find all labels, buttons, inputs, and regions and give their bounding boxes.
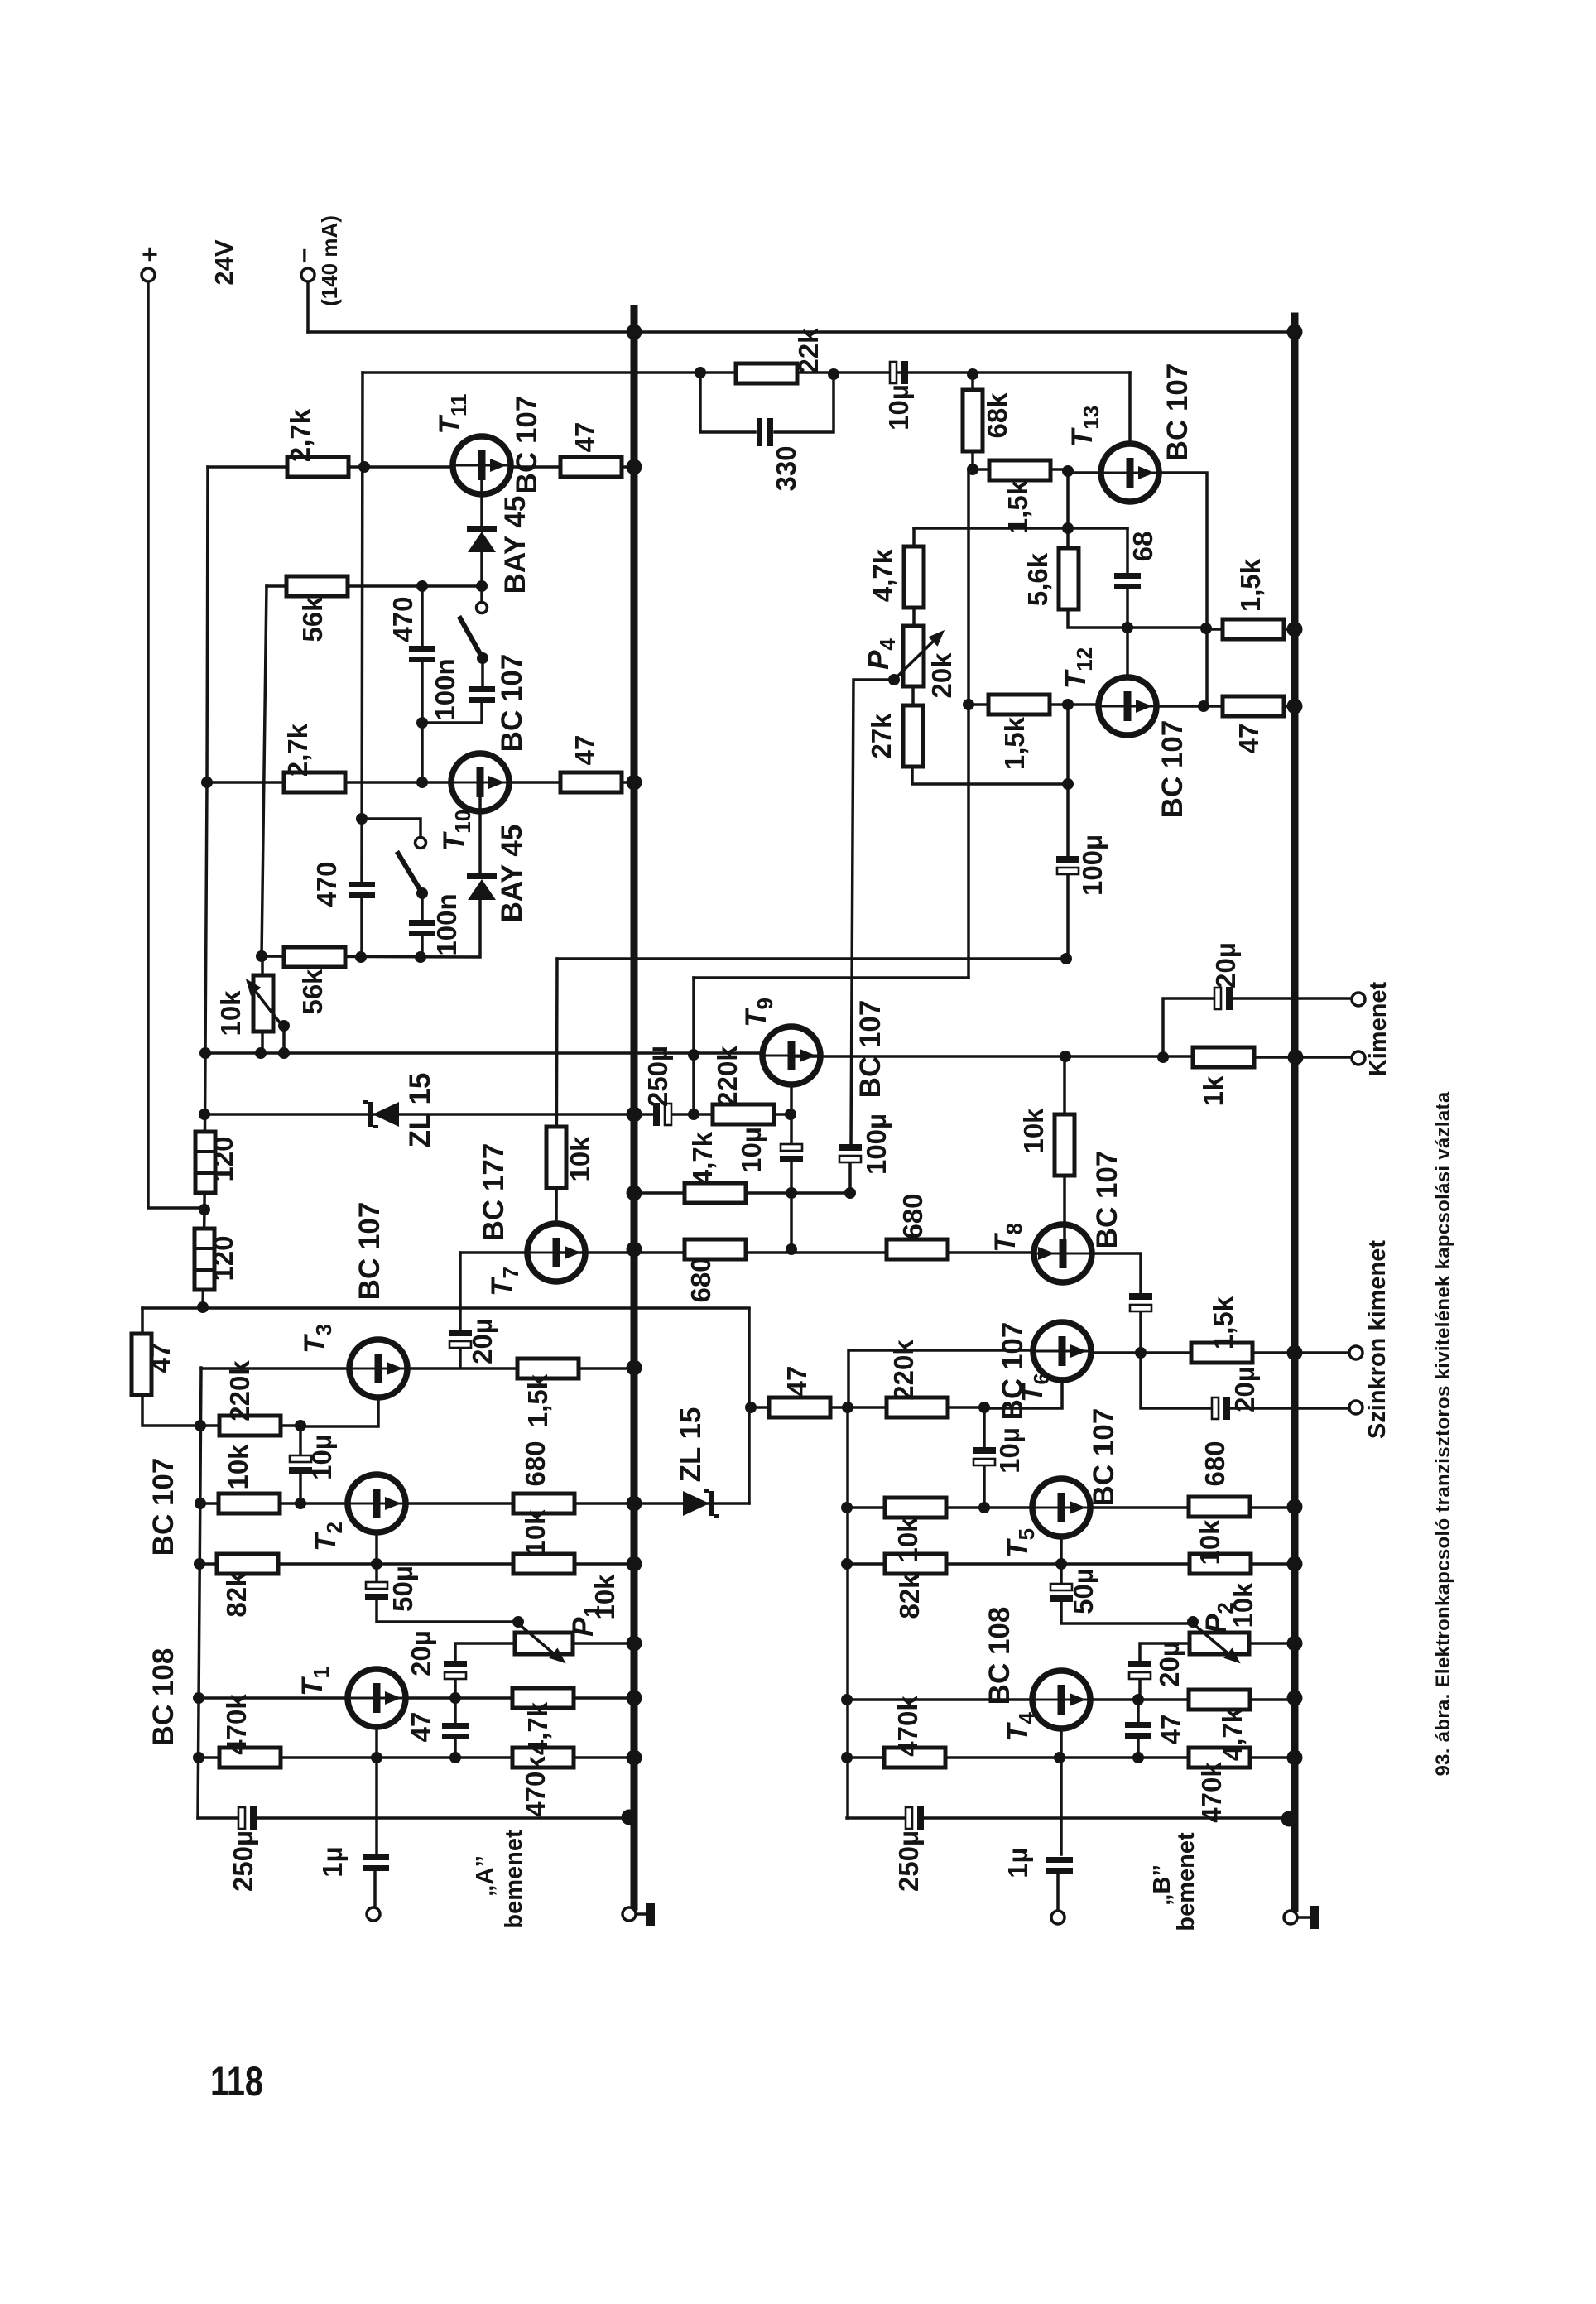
transistor T9 BC107 <box>762 1027 820 1085</box>
svg-text:ZL 15: ZL 15 <box>675 1407 707 1483</box>
wire base tie horizontal y1181 <box>694 976 969 979</box>
wire 220k A line <box>200 1424 300 1427</box>
resistor 2,7k #1 <box>287 457 349 477</box>
svg-text:bemenet: bemenet <box>1173 1832 1199 1931</box>
transistor T7 BC177 <box>527 1224 585 1282</box>
svg-text:BC 107: BC 107 <box>854 1000 887 1099</box>
wire T5 emitter to bus <box>1089 1506 1295 1509</box>
capacitor 20µ A <box>444 1661 467 1679</box>
wire T3 emitter line to bus <box>406 1367 634 1370</box>
capacitor 100n #1 <box>469 686 495 703</box>
resistor 47 (T11 emitter) <box>560 457 622 477</box>
svg-text:20µ: 20µ <box>1229 1366 1260 1412</box>
potentiometer P1 wiper arrow <box>519 1624 556 1656</box>
svg-text:10k: 10k <box>1018 1108 1049 1154</box>
svg-text:BC 177: BC 177 <box>478 1143 510 1242</box>
resistor 2,7k #2 <box>284 772 345 792</box>
svg-text:118: 118 <box>210 2058 263 2104</box>
svg-text:+: + <box>134 246 165 262</box>
wire 68 cap hang <box>1126 528 1129 628</box>
wire T2 emitter to bus <box>405 1502 634 1505</box>
resistor 10k (T8 collector) <box>1055 1114 1074 1176</box>
wire ZL15#2 line <box>634 1502 749 1505</box>
svg-text:50µ: 50µ <box>387 1566 418 1612</box>
svg-text:47: 47 <box>1156 1715 1186 1745</box>
terminal ground A <box>623 1907 636 1921</box>
transistor T2 BC107 <box>348 1474 406 1532</box>
capacitor 20µ (T3-T7) <box>449 1330 472 1348</box>
wire T9 base long line <box>205 1051 763 1055</box>
resistor 10k B2 <box>1190 1554 1251 1574</box>
resistor 680 A <box>513 1494 574 1513</box>
transistor T10 BC107 <box>451 753 509 811</box>
wire switch2 chain / 100n#2 <box>362 819 422 957</box>
wire A-rail lower column <box>198 1368 201 1818</box>
svg-text:250µ: 250µ <box>228 1830 258 1892</box>
capacitor 20µ (Kimenet) <box>1214 987 1233 1010</box>
wire 10u A chain <box>299 1426 302 1503</box>
wire 10k B line to T5 <box>847 1506 1033 1509</box>
wire T2 collector <box>375 1532 378 1564</box>
svg-text:ZL 15: ZL 15 <box>404 1073 436 1148</box>
transistor T6 BC107 <box>1033 1322 1091 1380</box>
wire sync2 20u line <box>1141 1353 1350 1408</box>
wire 47/220k B line y1700 <box>751 1406 984 1409</box>
wire long vertical T11-base / switch2 column <box>362 373 363 957</box>
svg-text:10k: 10k <box>892 1517 923 1563</box>
terminal Szinkron 1 <box>1349 1346 1363 1359</box>
capacitor 1µ A <box>363 1854 389 1871</box>
capacitor 50µ B <box>1050 1584 1073 1602</box>
svg-text:Szinkron kimenet: Szinkron kimenet <box>1364 1240 1391 1439</box>
capacitor 100n #2 <box>409 920 435 936</box>
wire P4 wiper to 100u column <box>850 680 894 1193</box>
svg-text:330: 330 <box>771 445 801 491</box>
wire 1,5k top-right to bus <box>1206 628 1295 631</box>
svg-text:250µ: 250µ <box>893 1830 924 1892</box>
resistor 5,6k <box>1059 548 1079 609</box>
wire T4 emitter line <box>1089 1698 1295 1701</box>
resistor 82k A <box>217 1554 278 1574</box>
svg-text:47: 47 <box>145 1343 175 1373</box>
resistor 1k <box>1193 1047 1254 1067</box>
ground bus B <box>1291 316 1299 1908</box>
wire 82k B line <box>847 1562 1295 1566</box>
wire T3 collector to 220k node <box>300 1397 378 1426</box>
capacitor 100µ (T12) <box>1056 856 1079 874</box>
wire 10u B chain <box>983 1407 986 1508</box>
transistor T11 BC107 <box>453 436 511 494</box>
svg-text:„B”: „B” <box>1149 1864 1175 1906</box>
svg-text:–: – <box>287 248 318 263</box>
svg-text:BC 107: BC 107 <box>496 654 528 753</box>
svg-text:47: 47 <box>570 735 600 766</box>
svg-text:BC 107: BC 107 <box>1088 1408 1120 1507</box>
resistor 470k B2 <box>1189 1748 1250 1768</box>
svg-text:bemenet: bemenet <box>501 1830 527 1929</box>
svg-text:680: 680 <box>897 1193 928 1239</box>
svg-text:10k: 10k <box>215 990 246 1037</box>
svg-text:10k: 10k <box>520 1509 550 1556</box>
svg-text:68k: 68k <box>982 392 1012 439</box>
resistor 10k (T7 collector) <box>546 1127 566 1188</box>
capacitor 250µ A <box>238 1806 257 1830</box>
wire T1 emitter line <box>405 1696 634 1700</box>
svg-text:BC 107: BC 107 <box>997 1322 1029 1421</box>
svg-text:10µ: 10µ <box>306 1434 337 1480</box>
wire T8 emitter / 20u sync1 <box>1091 1253 1141 1353</box>
transistor T3 BC107 <box>349 1340 407 1397</box>
potentiometer P1 10k body <box>515 1633 573 1654</box>
terminal input A <box>367 1907 380 1921</box>
wire T6 base line <box>848 1350 1034 1407</box>
svg-text:Kimenet: Kimenet <box>1365 981 1392 1076</box>
wire T5 collector <box>1060 1536 1063 1564</box>
potentiometer P2 10k body <box>1190 1633 1249 1654</box>
wire T7 base lead <box>460 1251 528 1254</box>
wire T6 emitter / 1,5k / sync out <box>1090 1351 1350 1354</box>
resistor 1,5k (emitter node) <box>1223 619 1284 639</box>
capacitor 470 #2 <box>349 882 375 898</box>
resistor 47 (T10 emitter) <box>560 772 622 792</box>
wire 10k T7 column <box>556 959 557 1224</box>
ground bus A <box>631 309 638 1907</box>
svg-text:100µ: 100µ <box>861 1114 892 1175</box>
wire 50u B to P2 wiper <box>1061 1564 1193 1623</box>
wire T12 collector <box>1126 628 1129 678</box>
resistor 4,7k (P4 chain) <box>904 546 924 608</box>
resistor 10k A <box>219 1494 280 1513</box>
resistor 680 #2 <box>887 1239 948 1259</box>
wire switch1 chain / 100n#1 <box>482 586 483 723</box>
svg-text:4,7k: 4,7k <box>1217 1707 1247 1761</box>
svg-text:10k: 10k <box>1195 1519 1225 1566</box>
wire T2 base line <box>200 1502 349 1505</box>
svg-text:220k: 220k <box>712 1046 743 1107</box>
resistor 1,5k (T6) <box>1191 1343 1252 1363</box>
wire T3 base lead <box>201 1367 350 1370</box>
svg-text:100n: 100n <box>430 658 460 720</box>
wire 470k B line <box>847 1756 1295 1759</box>
capacitor 10µ (22k line) <box>890 361 908 384</box>
wire -terminal drop <box>306 281 310 332</box>
resistor 47 B <box>769 1397 830 1417</box>
svg-text:470: 470 <box>311 861 342 907</box>
capacitor 50µ A <box>365 1582 388 1600</box>
capacitor 470 #1 <box>409 646 435 662</box>
svg-text:2,7k: 2,7k <box>285 408 315 462</box>
capacitor 10µ B <box>973 1447 996 1465</box>
wire +24V rail <box>148 281 204 1208</box>
svg-text:1µ: 1µ <box>317 1846 348 1877</box>
svg-text:20µ: 20µ <box>1154 1641 1185 1687</box>
capacitor 68 <box>1114 573 1141 589</box>
wire T11 emitter to ground bus <box>510 465 634 469</box>
wire emitter rail y1580 <box>142 1306 749 1310</box>
wire switch2 blade <box>398 854 422 893</box>
wire top supply line to buses <box>308 330 1295 334</box>
terminal -24V <box>301 268 315 281</box>
capacitor 100µ (T9 chain) <box>839 1144 862 1162</box>
diode BAY 45 (T10) <box>467 873 497 900</box>
svg-text:BC 107: BC 107 <box>353 1202 386 1301</box>
svg-text:10µ: 10µ <box>994 1427 1025 1474</box>
resistor 47 A-rail <box>132 1334 151 1395</box>
wire x906 column (ZL2 to emitter rail) <box>748 1309 751 1503</box>
wire T1 collector to 1u input <box>375 1726 377 1907</box>
diode BAY 45 (T11) <box>467 526 497 552</box>
svg-text:120: 120 <box>208 1235 238 1281</box>
potentiometer P4 20k body <box>903 626 924 686</box>
svg-text:4,7k: 4,7k <box>868 548 898 602</box>
wire 100n#1 to 470#1 node <box>422 721 482 724</box>
svg-text:47: 47 <box>406 1712 436 1743</box>
svg-text:1k: 1k <box>1198 1075 1228 1106</box>
wire left rail column (2,7k/120/A-chain) <box>203 467 208 1308</box>
wire 5,6k column + y758 line <box>1068 471 1206 628</box>
svg-text:BC 107: BC 107 <box>147 1458 180 1556</box>
wire 1,5k T12 base line <box>969 703 1099 706</box>
svg-text:100n: 100n <box>431 893 462 955</box>
svg-text:BC 108: BC 108 <box>147 1648 180 1747</box>
switch contact 2 <box>416 838 426 849</box>
svg-text:10k: 10k <box>565 1136 595 1182</box>
svg-text:470k: 470k <box>892 1696 923 1757</box>
wire 470#1 chain <box>421 586 424 782</box>
svg-text:47: 47 <box>570 422 600 453</box>
wire pot wiper tap <box>282 1026 286 1053</box>
wire T12 emitter / 47 to bus <box>1156 705 1295 708</box>
transistor T8 BC107 <box>1034 1224 1092 1282</box>
svg-text:93. ábra. Elektronkapcsoló tra: 93. ábra. Elektronkapcsoló tranzisztoros… <box>1432 1091 1454 1776</box>
wire 56k #1 line <box>267 584 482 588</box>
capacitor 1µ B <box>1046 1857 1073 1874</box>
wire 100u T12 column <box>1066 705 1070 959</box>
switch contact 1 <box>477 603 488 613</box>
capacitor 10µ (T9) <box>780 1144 803 1162</box>
wire B rail column <box>846 1407 849 1818</box>
wire Kimenet AC out <box>1163 998 1352 1057</box>
wire T4 collector to 1u input <box>1058 1728 1061 1911</box>
svg-text:10k: 10k <box>223 1444 253 1490</box>
wire T7 base cap column <box>459 1253 462 1368</box>
svg-text:470: 470 <box>387 596 418 642</box>
svg-text:680: 680 <box>520 1441 550 1486</box>
svg-text:4,7k: 4,7k <box>687 1131 718 1185</box>
svg-text:BAY 45: BAY 45 <box>499 496 531 594</box>
svg-text:100µ: 100µ <box>1077 835 1108 896</box>
svg-text:680: 680 <box>1199 1441 1230 1486</box>
capacitor 20µ (sync bottom) <box>1212 1397 1230 1420</box>
svg-text:BC 107: BC 107 <box>1161 363 1194 462</box>
svg-text:50µ: 50µ <box>1068 1568 1098 1614</box>
resistor 1,5k (T13 base) <box>989 460 1050 480</box>
resistor 10k A2 <box>513 1554 574 1574</box>
svg-text:680: 680 <box>685 1257 716 1302</box>
svg-text:BC 107: BC 107 <box>1091 1151 1123 1249</box>
svg-text:(140 mA): (140 mA) <box>317 215 342 306</box>
wire T13 emitter <box>1158 473 1207 706</box>
capacitor 250µ (mid) <box>653 1103 671 1126</box>
svg-text:120: 120 <box>208 1136 238 1181</box>
wire P2 left / 20u B <box>1140 1643 1190 1700</box>
resistor 4,7k B <box>1189 1690 1250 1710</box>
wire node line 22k/T13 collector feed <box>363 371 1130 374</box>
resistor 27k <box>903 705 923 767</box>
potentiometer 10k (left) body <box>253 975 273 1032</box>
wire 47 cap B chain <box>1137 1700 1140 1758</box>
wire T9/T12 base tie column <box>692 978 695 1114</box>
transistor T4 BC108 <box>1032 1671 1090 1729</box>
svg-text:27k: 27k <box>866 713 897 759</box>
svg-text:56k: 56k <box>297 969 328 1015</box>
resistor 1,5k (T3) <box>517 1359 579 1378</box>
wire T13 collector <box>1128 373 1132 445</box>
svg-text:20µ: 20µ <box>406 1630 436 1676</box>
terminal +24V <box>142 268 155 281</box>
svg-text:1,5k: 1,5k <box>1208 1296 1238 1349</box>
wire 250u A line <box>198 1816 629 1820</box>
resistor 680 #1 <box>685 1239 746 1259</box>
resistor 47 (T12 emitter) <box>1223 696 1284 716</box>
terminal ground B <box>1284 1911 1297 1924</box>
wire T10 base line <box>207 781 452 784</box>
svg-text:82k: 82k <box>221 1571 252 1618</box>
potentiometer P2 wiper arrow <box>1194 1624 1231 1656</box>
svg-text:1,5k: 1,5k <box>1002 479 1033 533</box>
wire 82k A line <box>199 1562 634 1566</box>
svg-text:470k: 470k <box>1196 1762 1227 1823</box>
resistor 470k A1 <box>219 1748 281 1768</box>
svg-text:250µ: 250µ <box>642 1046 673 1107</box>
svg-text:BC 107: BC 107 <box>1156 720 1189 819</box>
wire T9 collector chain w/ 10u <box>790 1085 793 1249</box>
svg-text:20µ: 20µ <box>1210 942 1241 988</box>
resistor 120 #2 <box>195 1229 214 1290</box>
svg-text:82k: 82k <box>894 1573 925 1619</box>
wire P1 left / 20u A <box>455 1643 515 1698</box>
resistor 680 B <box>1189 1497 1250 1517</box>
svg-text:47: 47 <box>781 1366 812 1397</box>
wire T10 collector to diode D2 and 56k#2 line <box>262 796 480 957</box>
svg-text:20µ: 20µ <box>467 1318 498 1364</box>
svg-text:BC 108: BC 108 <box>983 1607 1016 1705</box>
svg-text:470k: 470k <box>221 1694 252 1755</box>
wire 470k A line <box>199 1756 634 1759</box>
resistor 220k A <box>219 1416 281 1436</box>
capacitor 20µ B <box>1128 1661 1151 1679</box>
svg-text:47: 47 <box>1233 724 1264 754</box>
wire T8 collector w/10k <box>1063 1056 1066 1239</box>
resistor 1,5k (T12 base) <box>988 695 1050 714</box>
wire 47A vertical branch <box>142 1308 200 1426</box>
wire 330 bypass branch <box>700 373 834 432</box>
svg-text:BC 107: BC 107 <box>511 396 543 494</box>
zener ZL 15 #1 <box>363 1102 399 1127</box>
resistor 470k A2 <box>512 1748 574 1768</box>
capacitor 250µ B <box>906 1806 924 1830</box>
zener ZL 15 #2 <box>683 1491 719 1516</box>
wire T1 base line <box>199 1696 349 1700</box>
wire 250u B line <box>847 1816 1287 1820</box>
svg-text:1,5k: 1,5k <box>999 716 1030 770</box>
wire switch1 blade <box>460 618 483 658</box>
wire 68k/1,5k T13 line <box>973 374 1068 469</box>
svg-text:22k: 22k <box>793 328 824 374</box>
potentiometer P4 wiper arrow <box>892 639 935 681</box>
resistor 120 #1 <box>195 1132 215 1193</box>
svg-text:1,5k: 1,5k <box>522 1373 553 1427</box>
transistor T5 BC107 <box>1032 1479 1090 1537</box>
capacitor 47 B <box>1125 1722 1151 1739</box>
svg-text:10µ: 10µ <box>883 384 914 430</box>
wire P2 right to bus <box>1249 1642 1295 1645</box>
ground symbol B <box>1297 1916 1310 1919</box>
wire T4 base line <box>847 1698 1033 1701</box>
svg-text:5,6k: 5,6k <box>1022 552 1053 606</box>
wire T11 collector to diode D1 <box>480 468 483 586</box>
svg-text:4,7k: 4,7k <box>522 1701 553 1755</box>
wire T13 base <box>1068 471 1102 474</box>
resistor 56k #1 <box>286 576 348 596</box>
wire P1 right to bus <box>573 1642 634 1645</box>
capacitor 20µ (sync top) <box>1129 1293 1152 1311</box>
wire 250u/220k line right of bus <box>634 1113 791 1116</box>
resistor 22k <box>736 363 797 383</box>
wire feedback line y1158 <box>557 957 1066 960</box>
svg-text:1µ: 1µ <box>1002 1847 1033 1878</box>
svg-text:68: 68 <box>1127 532 1158 562</box>
svg-text:„A”: „A” <box>472 1855 498 1897</box>
resistor 56k #2 <box>284 947 345 967</box>
capacitor 47 A <box>442 1723 469 1739</box>
wire T11 base line <box>208 465 454 469</box>
transistor T1 BC108 <box>348 1669 406 1727</box>
ground symbol A <box>636 1912 647 1916</box>
svg-text:BAY 45: BAY 45 <box>496 825 528 923</box>
wire 56k column <box>262 586 267 956</box>
transistor T12 BC107 <box>1098 677 1156 735</box>
svg-text:56k: 56k <box>297 596 328 642</box>
svg-text:220k: 220k <box>888 1340 919 1401</box>
wire output line y1276 <box>795 1056 1352 1057</box>
resistor 10k B <box>885 1498 946 1518</box>
resistor 4,7k (T9) <box>685 1183 746 1203</box>
wire T10 emitter to bus <box>508 781 634 784</box>
svg-text:470k: 470k <box>520 1756 550 1817</box>
potentiometer 10k wiper arrow <box>253 988 285 1029</box>
terminal Szinkron 2 <box>1349 1401 1363 1414</box>
wire 680 line to T8 base <box>556 1251 1035 1254</box>
terminal Kimenet 1 <box>1352 993 1365 1006</box>
transistor T13 BC107 <box>1101 444 1159 502</box>
wire T12 base column x1170 <box>967 469 970 978</box>
wire 50u A to P1 wiper <box>377 1564 518 1622</box>
wire 4,7k T9 line <box>634 1191 850 1195</box>
terminal Kimenet 2 <box>1352 1051 1365 1065</box>
resistor 220k (T9) <box>713 1104 774 1124</box>
resistor 68k <box>963 390 983 451</box>
capacitor 10µ A <box>289 1455 312 1474</box>
wire P4 divider column <box>912 528 1068 784</box>
svg-text:220k: 220k <box>224 1360 255 1421</box>
resistor 470k B1 <box>884 1748 945 1768</box>
wire T6 collector <box>984 1378 1062 1408</box>
terminal input B <box>1051 1911 1065 1924</box>
wire pot 10k column <box>261 956 264 1053</box>
resistor 4,7k A <box>512 1688 574 1708</box>
svg-text:2,7k: 2,7k <box>282 723 313 777</box>
